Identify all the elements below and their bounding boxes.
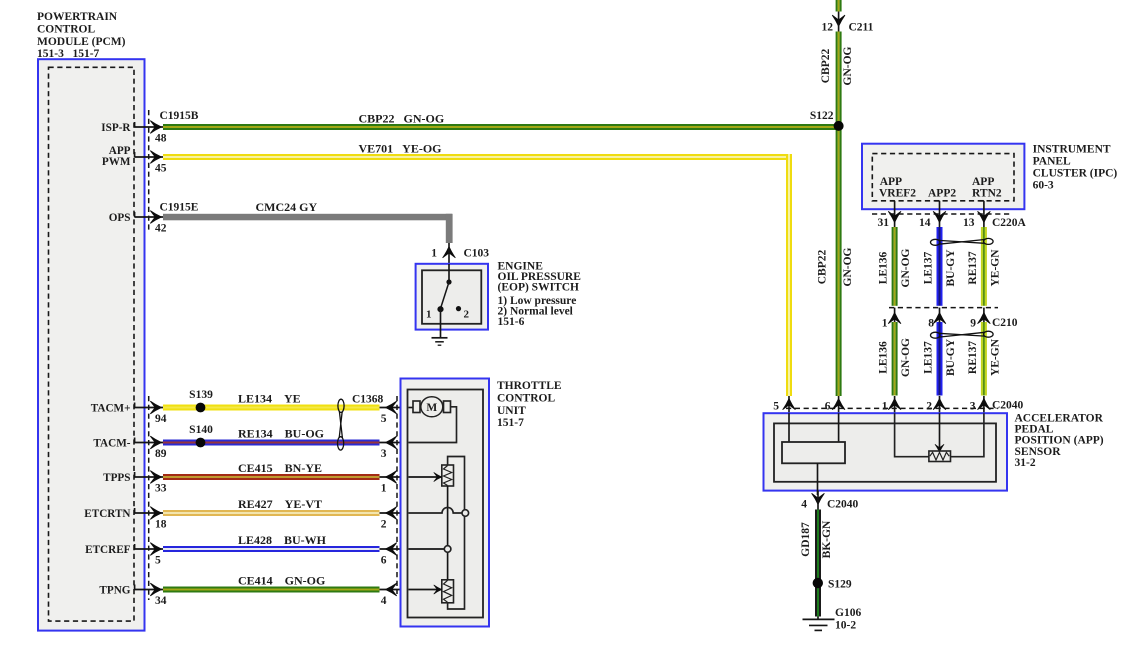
svg-text:TACM-: TACM-: [93, 438, 130, 450]
svg-text:C1915E: C1915E: [160, 201, 199, 213]
svg-text:TACM+: TACM+: [91, 403, 131, 415]
svg-text:C211: C211: [849, 22, 874, 34]
svg-text:RE134 BU-OG: RE134 BU-OG: [238, 427, 324, 441]
svg-text:BU-GY: BU-GY: [945, 338, 957, 376]
svg-text:C210: C210: [992, 317, 1018, 329]
svg-text:3: 3: [381, 448, 387, 460]
svg-text:151-7: 151-7: [497, 417, 524, 429]
svg-text:2: 2: [381, 518, 387, 530]
svg-text:1: 1: [431, 248, 437, 260]
svg-text:94: 94: [155, 413, 167, 425]
svg-text:ACCELERATOR: ACCELERATOR: [1015, 412, 1104, 424]
svg-text:31: 31: [878, 217, 890, 229]
svg-text:8: 8: [928, 318, 934, 330]
svg-text:BU-GY: BU-GY: [945, 249, 957, 287]
svg-text:33: 33: [155, 483, 167, 495]
svg-text:LE136: LE136: [878, 341, 890, 374]
svg-text:2: 2: [926, 401, 932, 413]
svg-text:S129: S129: [828, 579, 852, 591]
svg-text:LE137: LE137: [923, 251, 935, 284]
svg-text:5: 5: [381, 413, 387, 425]
svg-text:C220A: C220A: [992, 217, 1027, 229]
svg-text:C2040: C2040: [992, 400, 1024, 412]
svg-text:PWM: PWM: [102, 156, 131, 168]
svg-text:9: 9: [970, 318, 976, 330]
svg-text:CONTROL: CONTROL: [497, 392, 555, 404]
svg-text:(EOP) SWITCH: (EOP) SWITCH: [498, 282, 580, 294]
svg-text:C2040: C2040: [827, 499, 859, 511]
svg-text:THROTTLE: THROTTLE: [497, 380, 562, 392]
svg-text:31-2: 31-2: [1015, 457, 1036, 469]
svg-text:CE415 BN-YE: CE415 BN-YE: [238, 461, 322, 475]
svg-text:LE136: LE136: [878, 251, 890, 284]
svg-text:INSTRUMENT: INSTRUMENT: [1033, 144, 1111, 156]
svg-text:12: 12: [822, 22, 834, 34]
svg-text:151-3 151-7: 151-3 151-7: [37, 48, 100, 60]
svg-text:APP: APP: [972, 176, 994, 188]
svg-text:TPNG: TPNG: [99, 585, 130, 597]
svg-text:1: 1: [882, 401, 888, 413]
svg-text:GN-OG: GN-OG: [842, 46, 854, 85]
svg-text:CBP22 GN-OG: CBP22 GN-OG: [359, 112, 445, 126]
svg-text:GD187: GD187: [800, 522, 812, 557]
svg-text:GN-OG: GN-OG: [900, 338, 912, 377]
svg-text:1: 1: [381, 482, 387, 494]
svg-text:ETCREF: ETCREF: [85, 544, 131, 556]
svg-text:RE427 YE-VT: RE427 YE-VT: [238, 497, 322, 511]
svg-text:S122: S122: [810, 110, 834, 122]
svg-text:13: 13: [963, 217, 975, 229]
svg-text:CMC24 GY: CMC24 GY: [256, 200, 318, 214]
svg-text:CBP22: CBP22: [820, 49, 832, 84]
svg-text:48: 48: [155, 133, 167, 145]
svg-text:RE137: RE137: [967, 341, 979, 374]
svg-text:LE428 BU-WH: LE428 BU-WH: [238, 533, 327, 547]
svg-text:APP2: APP2: [928, 188, 956, 200]
svg-text:OPS: OPS: [109, 212, 131, 224]
svg-text:UNIT: UNIT: [497, 405, 526, 417]
svg-text:TPPS: TPPS: [103, 472, 130, 484]
svg-text:PANEL: PANEL: [1033, 156, 1071, 168]
svg-text:1: 1: [426, 309, 432, 321]
svg-text:C1915B: C1915B: [160, 110, 199, 122]
svg-text:CONTROL: CONTROL: [37, 23, 95, 35]
svg-text:42: 42: [155, 223, 167, 235]
svg-text:RTN2: RTN2: [972, 188, 1002, 200]
svg-text:3: 3: [970, 401, 976, 413]
svg-text:PEDAL: PEDAL: [1015, 424, 1054, 436]
svg-text:60-3: 60-3: [1033, 180, 1054, 192]
svg-text:10-2: 10-2: [835, 620, 856, 632]
svg-text:VREF2: VREF2: [879, 188, 916, 200]
svg-text:ISP-R: ISP-R: [101, 122, 131, 134]
svg-text:G106: G106: [835, 607, 861, 619]
svg-text:POSITION (APP): POSITION (APP): [1015, 435, 1104, 447]
svg-text:LE134 YE: LE134 YE: [238, 392, 301, 406]
svg-text:LE137: LE137: [923, 341, 935, 374]
svg-text:14: 14: [919, 217, 931, 229]
svg-text:POWERTRAIN: POWERTRAIN: [37, 11, 118, 23]
svg-text:18: 18: [155, 519, 167, 531]
svg-text:C103: C103: [464, 248, 490, 260]
svg-text:2: 2: [464, 309, 470, 321]
svg-text:CBP22: CBP22: [817, 250, 829, 285]
svg-text:1: 1: [882, 318, 888, 330]
svg-text:45: 45: [155, 163, 167, 175]
svg-text:6: 6: [381, 554, 387, 566]
svg-text:RE137: RE137: [967, 251, 979, 284]
svg-text:5: 5: [773, 401, 779, 413]
svg-text:VE701 YE-OG: VE701 YE-OG: [359, 142, 442, 156]
svg-text:CE414 GN-OG: CE414 GN-OG: [238, 574, 325, 588]
svg-text:34: 34: [155, 595, 167, 607]
svg-text:6: 6: [825, 401, 831, 413]
svg-text:YE-GN: YE-GN: [989, 338, 1001, 376]
svg-text:C1368: C1368: [352, 394, 384, 406]
svg-text:S139: S139: [189, 389, 213, 401]
svg-text:4: 4: [801, 499, 807, 511]
svg-text:GN-OG: GN-OG: [900, 248, 912, 287]
svg-text:CLUSTER (IPC): CLUSTER (IPC): [1033, 168, 1118, 180]
svg-text:S140: S140: [189, 424, 213, 436]
svg-text:4: 4: [381, 595, 387, 607]
svg-text:5: 5: [155, 555, 161, 567]
svg-text:ETCRTN: ETCRTN: [84, 508, 130, 520]
svg-text:M: M: [426, 402, 437, 414]
svg-text:151-6: 151-6: [498, 316, 525, 328]
svg-text:YE-GN: YE-GN: [989, 249, 1001, 287]
svg-text:89: 89: [155, 448, 167, 460]
svg-text:MODULE (PCM): MODULE (PCM): [37, 36, 126, 48]
svg-text:SENSOR: SENSOR: [1015, 446, 1062, 458]
svg-text:APP: APP: [880, 176, 902, 188]
svg-text:BK-GN: BK-GN: [821, 520, 833, 558]
svg-text:GN-OG: GN-OG: [842, 247, 854, 286]
